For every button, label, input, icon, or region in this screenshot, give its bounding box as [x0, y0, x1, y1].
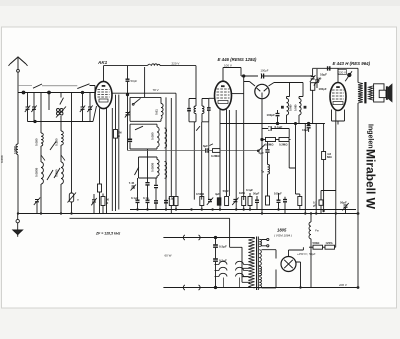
coil L6 second column: [165, 128, 167, 148]
band switch S2: [47, 170, 53, 180]
svg-text:100 V: 100 V: [224, 64, 232, 68]
trimmer 50pF right: [340, 201, 349, 214]
IF transformer 1: [187, 99, 210, 200]
capacitor C5: [131, 196, 140, 210]
wire top right y76: [241, 75, 310, 77]
break arcs top: [183, 235, 200, 240]
svg-text:0.2MΩ: 0.2MΩ: [211, 154, 220, 158]
oscillator loop A: [130, 97, 163, 121]
svg-text:0.1μF: 0.1μF: [246, 188, 253, 192]
wire corner to E443: [310, 75, 313, 77]
capacitor 6uF on AVC line: [203, 144, 213, 153]
resistor R1 (cathode): [98, 184, 102, 192]
svg-text:ZF = 128,5 kHz: ZF = 128,5 kHz: [95, 232, 120, 236]
wire v166: [165, 97, 167, 209]
wire top bus left: [18, 92, 95, 94]
node dot A: [22, 91, 25, 94]
resistor 4.8M cathode: [322, 123, 333, 211]
svg-text:50pF: 50pF: [131, 79, 138, 83]
trimmer capacitor T4: [34, 198, 40, 214]
svg-text:200 V: 200 V: [338, 283, 348, 287]
capacitor 100uF: [258, 69, 269, 79]
trimmer 100pF: [314, 69, 327, 91]
break arcs bottom: [183, 285, 200, 290]
coil L3: [35, 162, 44, 184]
svg-text:1MΩ: 1MΩ: [239, 191, 246, 195]
wire v118.8: [118, 95, 120, 210]
resistor boxes near rails (mid): [196, 188, 282, 209]
svg-text:220 V: 220 V: [172, 62, 180, 66]
E443 cathode bracket: [332, 110, 345, 125]
IF transformer 2: [281, 83, 306, 210]
svg-text:0.080: 0.080: [151, 132, 155, 140]
resistor 500 ohm: [309, 241, 323, 287]
wire left drop: [243, 76, 245, 200]
wire v112: [111, 108, 113, 211]
heater winding stack 2: [236, 261, 249, 287]
tube E443: [313, 61, 371, 111]
resistor 0.1 box: [313, 191, 336, 214]
svg-text:100pF: 100pF: [274, 192, 282, 196]
svg-text:0.5MΩ: 0.5MΩ: [196, 192, 205, 196]
svg-text:0.1μF: 0.1μF: [131, 196, 139, 200]
resistor R4: [174, 197, 178, 206]
resistor 50ohm: [101, 194, 110, 214]
capacitor 0.5uF a: [213, 238, 227, 259]
rail junction dots: [17, 208, 360, 289]
capacitor 10uF: [302, 122, 311, 132]
oscillator loop C: [135, 157, 160, 178]
power transformer: [242, 237, 269, 291]
tube E446: [209, 57, 257, 210]
resistor 1M: [114, 95, 123, 211]
mid verticals: [171, 98, 176, 214]
top scan band: [0, 0, 400, 6]
svg-text:±20%: ±20%: [326, 241, 334, 245]
svg-text:500Ω: 500Ω: [313, 241, 321, 245]
ground symbol: [13, 214, 23, 237]
capacitor C7: [164, 196, 174, 202]
svg-text:0.0805: 0.0805: [13, 146, 17, 154]
coil L1: [35, 133, 44, 146]
trimmer + resistor on 312.6: [310, 68, 322, 123]
oscillator loop B: [128, 124, 159, 149]
svg-text:( VGM 1064 ): ( VGM 1064 ): [274, 234, 292, 238]
svg-text:78 V: 78 V: [153, 88, 159, 92]
coil L4: [55, 162, 64, 184]
svg-text:0.080: 0.080: [289, 104, 293, 111]
tube AK1: [95, 60, 112, 214]
svg-text:100pF: 100pF: [267, 113, 276, 117]
svg-text:μF: μF: [313, 203, 317, 207]
band switch S1: [50, 142, 56, 151]
svg-text:60 W: 60 W: [165, 254, 172, 258]
node dot: [243, 75, 245, 77]
wire to IFT1: [160, 66, 196, 99]
detector network: [259, 125, 296, 214]
svg-text:0.0805: 0.0805: [151, 162, 155, 172]
potentiometer P1: [68, 193, 80, 214]
mains wire top: [163, 238, 254, 239]
svg-text:50pF: 50pF: [340, 201, 347, 205]
wire v176: [175, 93, 177, 196]
svg-text:0.080: 0.080: [35, 138, 39, 146]
antenna switch: [18, 84, 95, 93]
capacitor 0.5uF b: [213, 259, 227, 288]
antenna: [9, 57, 28, 214]
capacitor 50pF: [125, 66, 138, 151]
heater winding stack 1: [215, 261, 228, 287]
svg-text:0.080: 0.080: [294, 104, 298, 111]
resistor R3: [169, 197, 173, 206]
svg-text:Ta: Ta: [261, 170, 265, 174]
wire bus mid: [112, 92, 176, 94]
svg-text:50pF: 50pF: [253, 192, 260, 196]
svg-text:AK1: AK1: [97, 60, 108, 65]
output transformer: [358, 82, 373, 288]
left tuning section verticals: [28, 93, 97, 214]
svg-text:0.1μ: 0.1μ: [143, 196, 149, 200]
capacitor 100pF: [267, 110, 280, 125]
resistor R2 bumps: [104, 64, 150, 66]
svg-text:0.0805: 0.0805: [35, 167, 39, 177]
svg-text:0.000: 0.000: [0, 155, 4, 163]
field coil Fw: [309, 214, 320, 248]
resistor 0.2M on AVC line: [211, 149, 220, 158]
wire bottom rail 2: [18, 213, 358, 215]
svg-text:0.1μF: 0.1μF: [275, 125, 283, 129]
mid verticals: [229, 110, 236, 210]
svg-text:Mirabell W: Mirabell W: [364, 149, 378, 210]
coil L2: [55, 131, 64, 146]
wire y123 right: [220, 123, 325, 125]
svg-text:MΩ: MΩ: [327, 155, 332, 159]
rectifier tube 1805: [274, 228, 296, 272]
svg-text:100μF: 100μF: [261, 69, 269, 73]
coil L7 second column: [165, 162, 167, 179]
magic eye tube: [244, 82, 303, 140]
svg-text:100pF: 100pF: [319, 87, 327, 91]
trimmer capacitor T5: [80, 93, 85, 122]
svg-text:+250 V≈, 50μF: +250 V≈, 50μF: [297, 252, 316, 256]
svg-text:0.2MΩ: 0.2MΩ: [265, 142, 274, 146]
svg-text:1805: 1805: [277, 228, 287, 233]
node dots mains: [214, 236, 216, 238]
svg-text:E 446 (RENS 1284): E 446 (RENS 1284): [218, 57, 257, 62]
mains wire bottom: [163, 287, 358, 289]
AVC link + switch: [128, 144, 266, 152]
svg-text:4μF: 4μF: [215, 192, 220, 196]
svg-text:0.2MΩ: 0.2MΩ: [279, 142, 288, 146]
trimmer capacitor T1: [25, 93, 30, 122]
trimmer capacitor T2: [31, 93, 36, 122]
svg-text:6μF: 6μF: [203, 144, 208, 148]
wire third rail: [70, 218, 243, 282]
capacitor C6: [143, 196, 150, 210]
node dot: [81, 91, 83, 93]
node dot B: [48, 91, 51, 94]
svg-text:7.45: 7.45: [129, 181, 135, 185]
svg-text:Ingelen: Ingelen: [367, 124, 374, 149]
verticals right-mid: [305, 124, 316, 214]
band switch S3: [54, 168, 60, 178]
svg-text:10μF: 10μF: [320, 73, 327, 77]
resistor 20%: [323, 214, 336, 250]
svg-text:0.61: 0.61: [155, 109, 159, 115]
grid wire: [144, 67, 146, 97]
svg-text:E 443 H (RES 964): E 443 H (RES 964): [333, 61, 371, 66]
trimmer capacitor T6: [87, 93, 92, 122]
speaker: [373, 83, 393, 102]
E443 cathode drop: [335, 111, 337, 214]
svg-text:0.5μF: 0.5μF: [219, 245, 227, 249]
wire bottom rail 1: [130, 209, 356, 211]
rectifier wiring: [262, 247, 304, 288]
svg-text:50pF: 50pF: [223, 189, 230, 193]
trimmer capacitor T7: [91, 194, 96, 214]
osc verticals to rails: [138, 149, 148, 200]
svg-text:220 V: 220 V: [338, 71, 346, 75]
